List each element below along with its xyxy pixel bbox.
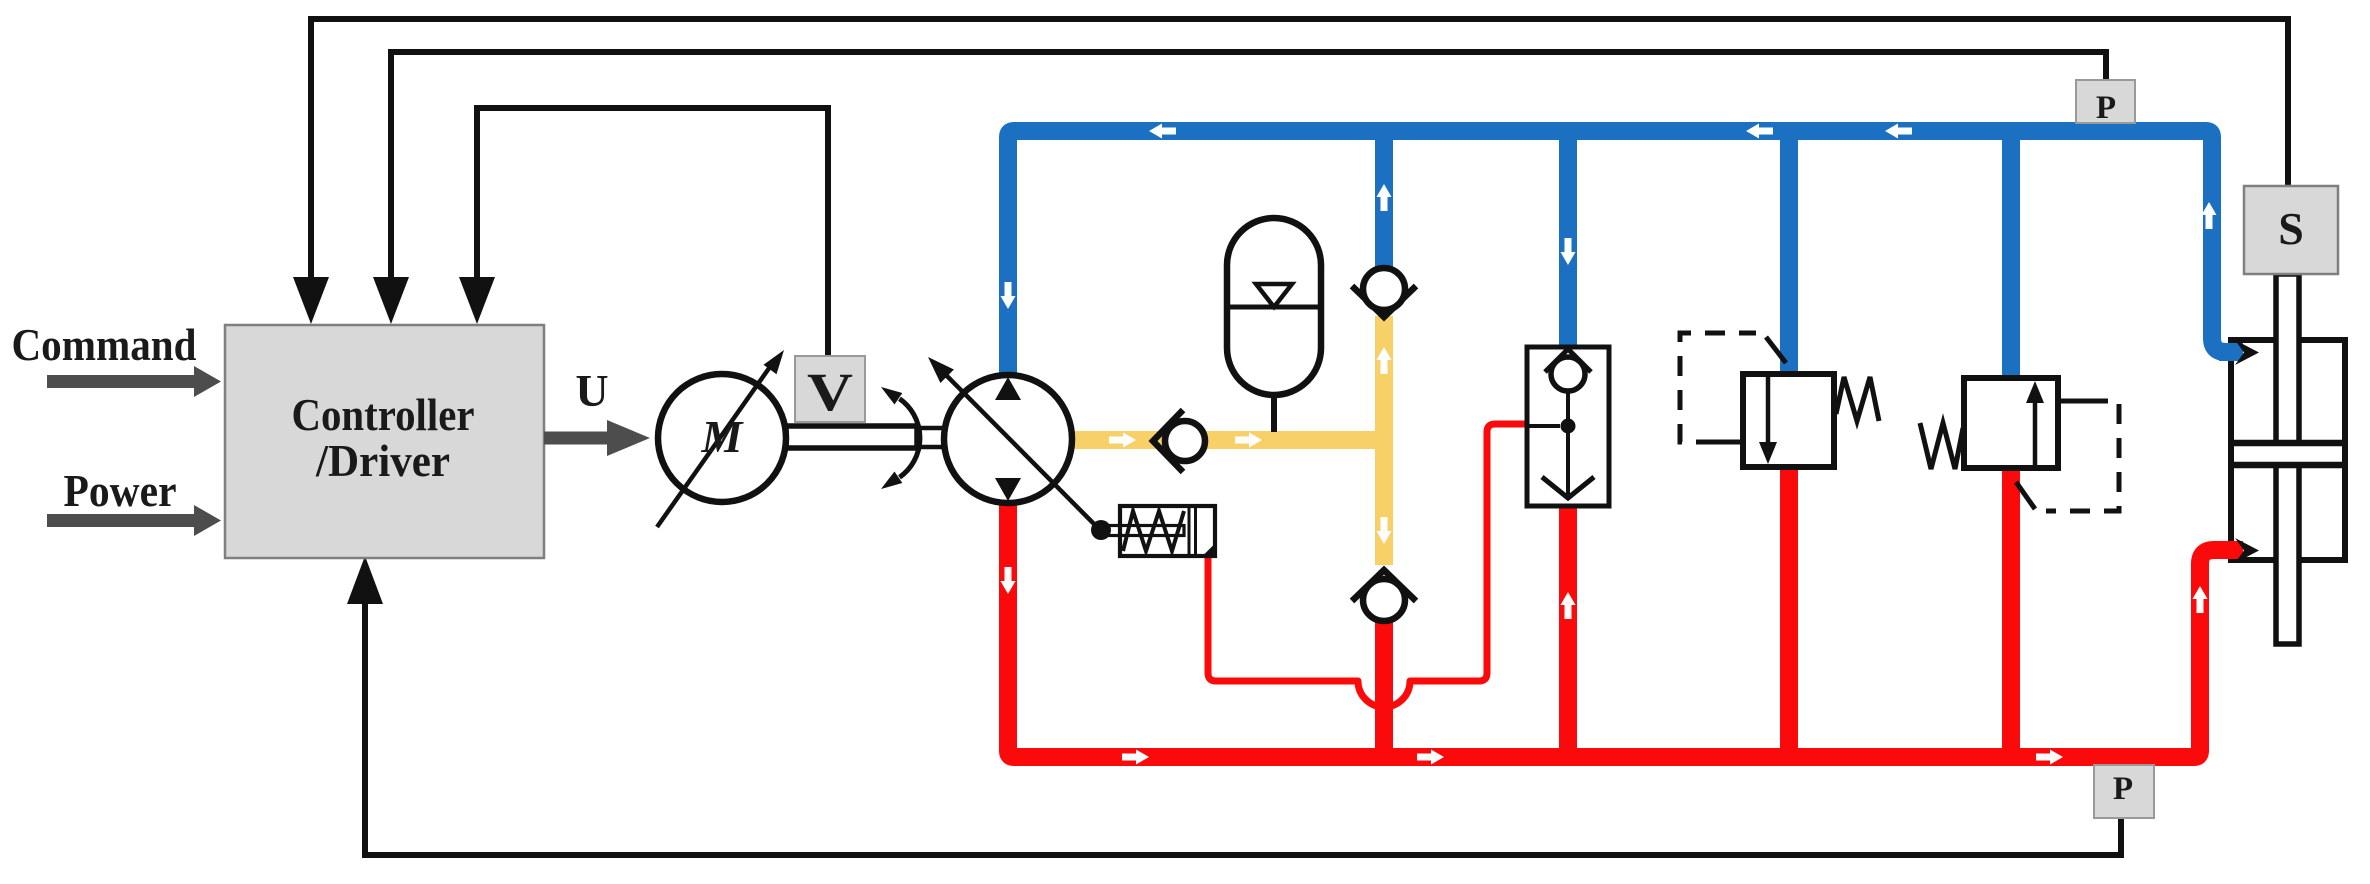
pump variable arrow diagonal <box>946 375 1101 531</box>
svg-text:Command: Command <box>12 319 197 370</box>
svg-text:Power: Power <box>64 465 177 516</box>
arrow Command input <box>47 366 221 397</box>
wire yellow accumulator vertical line <box>1375 316 1393 565</box>
svg-text:P: P <box>2113 771 2133 807</box>
wire red branch from relief valve RV2 <box>2002 467 2020 757</box>
svg-text:P: P <box>2096 90 2116 126</box>
controller/driver block <box>225 325 544 558</box>
flow arrow yellow right 1 <box>1109 433 1136 448</box>
pump control spring box <box>1091 506 1215 556</box>
arrowhead into controller bottom <box>347 556 383 604</box>
wire yellow accumulator horizontal line <box>1072 431 1384 449</box>
flow arrow blue down into pump <box>1001 282 1016 309</box>
flow arrow red up to pilot check valve <box>1561 592 1576 619</box>
check valve CV1 (yellow to blue) <box>1352 268 1416 317</box>
sensor box V <box>795 356 865 422</box>
wire red branch from relief valve RV1 <box>1780 466 1798 757</box>
svg-text:S: S <box>2278 203 2304 254</box>
wire red branch from pilot-operated check valve <box>1559 505 1577 757</box>
wire blue branch to relief valve RV2 <box>2002 140 2020 379</box>
flow arrow blue bus left 3 <box>1885 124 1912 139</box>
wire blue branch to check valve CV1 <box>1375 140 1393 268</box>
check valve CV3 (pump to accumulator line) <box>1153 410 1205 472</box>
flow arrow red up right riser <box>2193 586 2208 613</box>
flow arrow blue up to CV1 <box>1377 184 1392 211</box>
cylinder port stub red <box>2219 541 2243 559</box>
wire feedback S to controller (top) <box>311 19 2288 281</box>
pump triangle down <box>995 478 1021 501</box>
svg-text:/Driver: /Driver <box>315 435 450 486</box>
cylinder barrel <box>2231 340 2345 560</box>
flow arrow yellow right 2 <box>1235 433 1262 448</box>
arrowhead into controller top 3 <box>459 277 495 324</box>
wire thin red pilot line (pump control to pilot check valve) <box>1208 424 1527 707</box>
wire blue branch to pilot-operated check valve <box>1559 140 1577 348</box>
piston <box>2234 444 2342 464</box>
arrow U output to motor <box>544 420 650 456</box>
svg-text:V: V <box>807 362 853 422</box>
pilot-operated check valve <box>1527 347 1609 506</box>
sensor box S <box>2244 186 2338 274</box>
sensor box P top <box>2076 80 2135 123</box>
flow arrow yellow up <box>1377 347 1392 374</box>
flow arrow blue down to pilot check valve <box>1561 238 1576 265</box>
motor shaft <box>786 426 917 448</box>
flow arrow blue bus left 1 <box>1149 124 1176 139</box>
wire feedback V to controller <box>477 108 828 356</box>
wire blue main loop (pump A-port to cylinder cap end) <box>1008 131 2243 377</box>
flow arrow yellow down <box>1377 517 1392 544</box>
shaft coupling <box>917 428 944 447</box>
wire red branch from check valve CV2 <box>1375 620 1393 757</box>
flow arrow blue up right riser <box>2202 202 2217 229</box>
flow arrow red bus right 1 <box>1122 750 1149 765</box>
arrowhead into controller top 1 <box>293 277 329 324</box>
piston rod <box>2276 274 2299 644</box>
port chevron top <box>2235 340 2259 365</box>
cylinder port stub blue <box>2219 343 2243 361</box>
svg-text:M: M <box>701 411 745 462</box>
pump circle <box>944 375 1072 503</box>
sensor box P bottom <box>2094 765 2154 818</box>
wire red main loop (pump B-port to cylinder rod end) <box>1008 500 2243 757</box>
accumulator <box>1227 218 1321 432</box>
arrow Power input <box>47 505 221 536</box>
check valve CV2 (yellow to red) <box>1352 570 1416 621</box>
wire feedback P-bottom to controller (bottom) <box>365 604 2121 855</box>
motor M circle <box>658 374 786 502</box>
shaft rotation arc <box>900 399 920 478</box>
hydraulic cylinder <box>2219 274 2345 644</box>
relief valve RV2 <box>1920 378 2119 511</box>
arrowhead into controller top 2 <box>373 277 409 324</box>
flow arrow red bus right 2 <box>1417 750 1444 765</box>
wire feedback P-top to controller <box>391 52 2106 281</box>
port chevron bottom <box>2235 538 2259 563</box>
svg-text:U: U <box>575 365 608 416</box>
flow arrow red down from pump <box>1001 567 1016 594</box>
flow arrow red bus right 3 <box>2036 750 2063 765</box>
wire blue branch to relief valve RV1 <box>1780 140 1798 375</box>
relief valve RV1 <box>1680 333 1879 467</box>
svg-text:Controller: Controller <box>292 389 475 440</box>
motor variable arrow <box>657 364 772 527</box>
pump triangle up <box>995 377 1021 400</box>
flow arrow blue bus left 2 <box>1746 124 1773 139</box>
